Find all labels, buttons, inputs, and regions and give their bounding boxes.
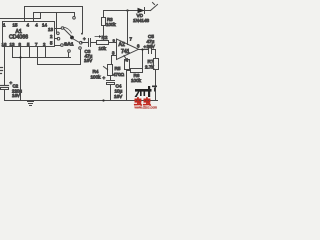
switch SA1 feed from rail bbox=[81, 33, 83, 35]
svg-text:R4: R4 bbox=[93, 69, 99, 74]
wire top supply rail bbox=[104, 10, 151, 12]
svg-text:R7: R7 bbox=[148, 59, 154, 64]
svg-text:4: 4 bbox=[27, 23, 30, 28]
svg-text:5: 5 bbox=[50, 41, 53, 46]
svg-text:16V: 16V bbox=[147, 44, 156, 49]
svg-text:741: 741 bbox=[121, 49, 130, 55]
wire IC bottom pin drops bbox=[4, 47, 6, 85]
switch SA1 rotation arc bbox=[63, 27, 72, 33]
wire op-amp output bbox=[139, 49, 149, 51]
wire bottom rail bbox=[5, 100, 158, 102]
op-amp A2 741 bbox=[117, 39, 139, 60]
junction dot output bbox=[141, 48, 143, 50]
capacitor C4 bbox=[110, 76, 112, 81]
svg-text:2: 2 bbox=[50, 34, 53, 39]
svg-text:A2: A2 bbox=[119, 42, 125, 48]
diode VD 1N4148 bbox=[138, 8, 145, 14]
junction dot bottom rail bbox=[102, 99, 104, 101]
junction dot bbox=[19, 56, 21, 58]
svg-text:10k: 10k bbox=[99, 46, 107, 51]
svg-text:16V: 16V bbox=[114, 94, 123, 99]
svg-text:1N4148: 1N4148 bbox=[133, 18, 150, 23]
svg-text:7: 7 bbox=[130, 37, 133, 42]
capacitor C2 bbox=[4, 85, 6, 86]
junction dot pin7 riser bbox=[126, 9, 128, 11]
svg-text:www.dzsc.com: www.dzsc.com bbox=[135, 105, 158, 109]
svg-text:470Ω: 470Ω bbox=[113, 72, 125, 77]
ground bbox=[28, 101, 34, 103]
resistor R5 bbox=[125, 60, 130, 70]
resistor R2 bbox=[97, 41, 109, 45]
capacitor C3 bbox=[82, 42, 89, 44]
wire pin13 to switch contact bbox=[55, 28, 61, 30]
svg-text:10μ: 10μ bbox=[115, 89, 123, 94]
svg-text:R5: R5 bbox=[115, 66, 121, 71]
svg-text:100k: 100k bbox=[131, 78, 142, 83]
wire op-amp pin7 riser bbox=[127, 11, 129, 45]
svg-text:4: 4 bbox=[35, 23, 38, 28]
svg-text:2.7k: 2.7k bbox=[145, 64, 154, 69]
wire top nest rail 2 bbox=[34, 13, 75, 22]
svg-text:+: + bbox=[83, 37, 86, 42]
resistor R3 bbox=[103, 11, 105, 18]
svg-text:1: 1 bbox=[3, 23, 6, 28]
svg-text:100k: 100k bbox=[106, 22, 116, 27]
wire vertical x56 to contact bbox=[56, 13, 58, 34]
resistor R6 bbox=[127, 70, 131, 72]
switch S top right bbox=[151, 5, 158, 11]
svg-text:13: 13 bbox=[10, 42, 15, 47]
svg-text:CD4066: CD4066 bbox=[9, 34, 28, 40]
wire top nest rail 3 bbox=[1, 13, 41, 19]
svg-text:16: 16 bbox=[2, 42, 7, 47]
wire top nest rail 1 bbox=[25, 7, 83, 33]
component cut off left edge bbox=[1, 67, 3, 69]
watermark bbox=[134, 86, 157, 110]
svg-text:100k: 100k bbox=[91, 74, 102, 79]
svg-text:14: 14 bbox=[42, 23, 47, 28]
wire pin right lower bbox=[55, 45, 61, 47]
resistor R7 bbox=[155, 50, 157, 59]
svg-text:R2: R2 bbox=[102, 35, 108, 40]
resistor R4 (adjustable) bbox=[108, 65, 113, 76]
svg-text:SA1: SA1 bbox=[64, 41, 74, 47]
svg-text:3: 3 bbox=[112, 51, 115, 56]
wire pin3 to divider bbox=[112, 56, 117, 65]
wire pin2 to switch contact bbox=[55, 38, 58, 40]
switch SA1 arm bbox=[64, 29, 73, 38]
wire op-amp pin4 drop bbox=[124, 56, 127, 60]
svg-text:16V: 16V bbox=[12, 93, 20, 98]
switch SA1 pivot bbox=[70, 36, 74, 40]
svg-text:13: 13 bbox=[48, 27, 53, 32]
wire bus y57 bbox=[13, 57, 71, 59]
svg-text:16V: 16V bbox=[84, 58, 93, 63]
svg-text:15: 15 bbox=[13, 23, 18, 28]
capacitor C5 bbox=[148, 46, 150, 54]
wire bus y64 bbox=[38, 50, 81, 65]
svg-text:+: + bbox=[103, 76, 106, 81]
svg-text:6: 6 bbox=[137, 44, 140, 49]
IC U1 box CD4066 bbox=[3, 22, 55, 47]
switch SA1 contacts bbox=[61, 27, 64, 30]
